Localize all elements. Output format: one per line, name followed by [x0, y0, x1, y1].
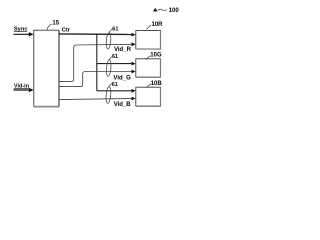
- svg-text:100: 100: [169, 7, 180, 14]
- svg-text:Vid-in: Vid-in: [14, 83, 30, 89]
- svg-text:61: 61: [112, 27, 118, 33]
- svg-text:Vid_G: Vid_G: [113, 74, 131, 81]
- svg-text:10R: 10R: [152, 22, 164, 28]
- svg-text:Ctr: Ctr: [62, 28, 71, 34]
- svg-text:Vid_R: Vid_R: [114, 47, 132, 53]
- svg-text:Sync: Sync: [14, 27, 28, 33]
- svg-text:61: 61: [112, 82, 118, 88]
- svg-text:10G: 10G: [150, 53, 162, 59]
- svg-text:61: 61: [112, 54, 118, 60]
- svg-text:Vid_B: Vid_B: [114, 102, 132, 108]
- svg-text:10B: 10B: [151, 81, 163, 87]
- svg-text:15: 15: [52, 21, 59, 27]
